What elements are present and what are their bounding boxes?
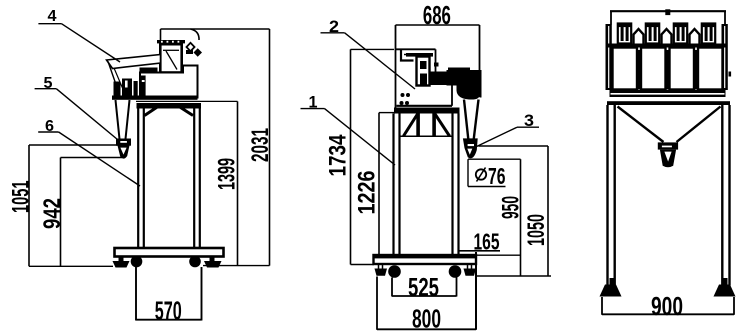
top lid center square — [665, 9, 670, 15]
dim 686 line — [396, 24, 480, 26]
right side plate tick — [729, 72, 732, 77]
label 2 leader — [345, 33, 415, 89]
ground extension right — [477, 275, 551, 277]
right screw foot pad — [204, 261, 222, 268]
frame left leg inner — [398, 114, 400, 256]
stand right leg outer — [728, 105, 730, 286]
motor white slit — [142, 80, 145, 82]
dim 1399 line — [237, 101, 239, 265]
label 6 leader — [59, 132, 140, 186]
weigh hopper 2 — [641, 48, 666, 90]
left foot stem — [610, 278, 614, 286]
svg-text:900: 900 — [651, 291, 683, 321]
head lower box right edge — [451, 85, 453, 106]
body top-left dark band — [140, 68, 158, 73]
head top edge — [396, 48, 436, 50]
feed hopper 2 — [646, 24, 659, 44]
svg-text:1734: 1734 — [325, 134, 352, 176]
frame cross member — [399, 135, 454, 137]
spout bag white inner V — [120, 148, 126, 155]
dim 900 line — [602, 313, 734, 315]
dim 165 underline — [458, 250, 500, 252]
feed hopper 3 — [674, 24, 687, 44]
diamond chute black block — [194, 48, 203, 56]
head right vertical line — [435, 49, 437, 71]
dim 570 line — [136, 319, 202, 321]
funnel spout white inner V — [467, 149, 472, 155]
top hopper lid white slits — [161, 41, 179, 43]
funnel spout bag — [118, 146, 130, 159]
linkage strip 3 — [695, 50, 697, 89]
arrow divider 2 — [662, 29, 672, 46]
funnel spout collar — [116, 139, 131, 146]
weigh funnel cone left edge — [116, 100, 120, 139]
mid band — [606, 44, 728, 48]
film column outer — [417, 57, 430, 86]
top lid line — [610, 10, 726, 12]
head bracket inner step — [404, 54, 414, 56]
arrow divider 1 — [634, 29, 644, 46]
svg-text:165: 165 — [474, 229, 500, 255]
dia 76 box left edge — [467, 159, 469, 186]
dim 1734 bottom extension — [351, 264, 375, 266]
bolt dots row1 — [401, 93, 405, 97]
left screw foot stems — [378, 264, 380, 269]
discharge funnel cone left — [464, 100, 469, 142]
right screw foot stem — [210, 257, 215, 262]
bolt dots row2 — [400, 101, 404, 105]
svg-text:1399: 1399 — [214, 158, 241, 190]
dia 76 symbol slash — [477, 168, 486, 182]
jaw lower blob — [447, 70, 481, 100]
dim 525 line — [392, 295, 457, 297]
dim 570 left extension — [135, 267, 137, 321]
left screw foot stem — [119, 257, 124, 262]
bag clamp mechanism right block — [134, 81, 138, 96]
bag collar — [658, 142, 678, 149]
dim 950 line — [520, 159, 522, 276]
vibratory feeder tray — [107, 55, 161, 69]
frame left leg outer line — [137, 109, 139, 249]
head left bracket — [401, 50, 414, 61]
svg-text:2031: 2031 — [247, 128, 274, 162]
left brace — [404, 114, 418, 136]
V funnel left — [618, 107, 664, 143]
svg-text:1: 1 — [309, 93, 318, 112]
frame bottom bar — [115, 248, 224, 257]
stand right leg inner — [721, 105, 723, 286]
right side plate white slit — [724, 26, 726, 88]
hopper section bottom band — [610, 90, 726, 98]
bag clamp mechanism center block — [122, 79, 132, 96]
V funnel right — [677, 107, 721, 143]
frame right leg inner — [451, 114, 453, 256]
dim 525 right extension — [456, 278, 458, 297]
jaw upper blob — [448, 68, 470, 73]
dim 525 left extension — [391, 278, 393, 297]
head right edge — [480, 70, 482, 98]
svg-text:1051: 1051 — [8, 181, 35, 214]
svg-text:686: 686 — [423, 0, 451, 30]
frame top bar — [137, 103, 202, 109]
window column outer — [160, 44, 181, 72]
bottom band white slit — [611, 93, 725, 95]
dia 76 underline — [468, 186, 506, 188]
label 5 leader — [56, 89, 117, 140]
frame right leg outer — [457, 114, 459, 256]
window inner top line — [163, 49, 179, 51]
svg-text:800: 800 — [412, 304, 441, 333]
stand left leg outer — [606, 105, 608, 286]
svg-text:950: 950 — [498, 196, 525, 219]
clamp white slit — [125, 81, 128, 88]
left side plate white slit — [608, 26, 610, 88]
feed hopper 1 bars — [621, 27, 624, 42]
small bracket above body right — [186, 50, 193, 54]
left screw foot pad — [375, 269, 388, 276]
svg-text:1050: 1050 — [523, 214, 550, 246]
dim 1050 line — [547, 146, 549, 276]
platform bar under head — [112, 96, 198, 100]
film column lower black window — [420, 74, 427, 85]
linkage strip 1 — [638, 50, 640, 89]
tray hanger rod — [108, 62, 120, 97]
svg-text:525: 525 — [408, 272, 439, 302]
dia 76 symbol circle — [476, 169, 486, 179]
head lower box bottom — [397, 105, 453, 107]
frame left gusset — [145, 107, 159, 116]
top hopper right curved edge — [191, 29, 200, 40]
dim 686 left extension / head left edge — [395, 25, 397, 113]
weigh hopper 4 — [698, 48, 723, 90]
dim 800 left extension — [376, 277, 378, 330]
svg-text:6: 6 — [45, 118, 54, 135]
feed hopper 4 — [702, 24, 715, 44]
top lid left edge — [610, 11, 612, 25]
dim 2031 line — [269, 29, 271, 266]
stand left leg inner — [614, 105, 616, 286]
label 1 underline — [301, 108, 325, 110]
label 2 underline — [321, 32, 345, 34]
svg-text:76: 76 — [488, 163, 506, 189]
funnel spout collar slit — [120, 141, 127, 143]
dim 1226 top extension — [379, 112, 394, 114]
dim 800 line — [377, 328, 476, 330]
dim 1734 line — [350, 49, 352, 264]
stand top bar — [607, 101, 730, 105]
weigh hopper 3 — [670, 48, 695, 90]
svg-text:570: 570 — [155, 295, 182, 325]
left caster — [388, 265, 401, 278]
right caster — [449, 265, 462, 278]
label 4 leader — [62, 24, 121, 62]
linkage strip 2 — [667, 50, 669, 89]
frame left leg inner line — [143, 109, 145, 249]
dim 950 top extension — [468, 158, 521, 160]
frame right leg outer line — [199, 109, 201, 249]
discharge funnel cone right — [474, 100, 479, 142]
weigh hopper 1 — [613, 48, 638, 90]
svg-text:1226: 1226 — [354, 171, 381, 215]
feed hopper 2 bars — [649, 27, 652, 42]
head right tick — [434, 63, 439, 67]
frame thin top line + 1399 extension — [136, 100, 238, 102]
body main box — [140, 66, 198, 98]
dim 570 right extension — [201, 267, 203, 321]
left screw foot pad — [113, 261, 130, 268]
dim 1051 line — [28, 145, 30, 266]
dim 1226 line — [378, 113, 380, 255]
left foot pad — [600, 285, 622, 297]
arrow divider 3 — [690, 29, 700, 46]
machine top line / 2031 top extension — [161, 28, 270, 30]
weigh funnel cone right edge — [126, 100, 130, 139]
top hopper lid band — [157, 40, 185, 43]
right foot pad — [714, 285, 736, 297]
frame right gusset — [179, 107, 193, 116]
ground line left segment — [29, 265, 113, 267]
bag collar white slit — [662, 146, 672, 148]
svg-text:3: 3 — [524, 111, 534, 130]
frame left leg outer — [392, 114, 394, 256]
ground line right segment / dim bottom extension — [203, 265, 270, 267]
bag clamp mechanism left block — [114, 82, 121, 97]
left mount post — [416, 114, 420, 137]
dim 1734 top extension — [351, 48, 395, 50]
right screw foot pad — [464, 269, 477, 276]
funnel collar white slit — [468, 144, 474, 146]
dim 942 extension top — [61, 157, 123, 159]
motor block behind funnel — [141, 76, 146, 98]
right mount post — [432, 114, 436, 137]
svg-text:942: 942 — [39, 198, 66, 229]
label 6 underline — [38, 131, 58, 133]
film column upper black window — [420, 61, 427, 69]
left side plate — [606, 24, 612, 90]
svg-text:4: 4 — [48, 8, 57, 25]
dim 900 left extension — [601, 297, 603, 315]
feed hopper 1 — [618, 24, 631, 44]
dim 686 right extension — [479, 25, 481, 97]
label 1 leader — [325, 109, 396, 165]
right foot stem — [724, 278, 728, 286]
svg-text:2: 2 — [329, 17, 339, 36]
feed hopper 4 bars — [705, 27, 708, 42]
svg-text:5: 5 — [44, 75, 53, 92]
label 3 leader — [475, 127, 518, 147]
label 4 underline — [38, 23, 61, 25]
frame right leg inner line — [193, 109, 195, 249]
sealing jaw band — [429, 72, 475, 86]
diamond discharge chute white — [187, 43, 195, 51]
funnel collar and spout — [463, 138, 478, 158]
head horizontal band — [406, 53, 433, 57]
bag body — [660, 150, 676, 168]
right side plate — [722, 24, 728, 90]
left caster wheel — [131, 256, 143, 268]
dim 800 right extension — [475, 252, 477, 330]
frame bottom bar — [374, 255, 477, 264]
dim 1050 top extension — [479, 145, 549, 147]
dim 900 right extension — [733, 297, 735, 315]
right screw foot stems — [467, 264, 469, 269]
window diagonal — [166, 51, 177, 70]
right caster wheel — [189, 256, 201, 268]
dim 165 upper extension — [477, 254, 521, 256]
feed hopper 3 bars — [677, 27, 680, 42]
frame top bar — [394, 108, 460, 114]
head upper-left vertical edge — [160, 29, 162, 44]
label 5 underline — [35, 88, 57, 90]
right brace — [435, 114, 450, 136]
dim 1051 extension top — [29, 144, 119, 146]
top lid right edge — [724, 11, 726, 25]
label 3 underline — [517, 126, 539, 128]
bag inner white V — [664, 152, 671, 162]
dim 942 line — [60, 158, 62, 267]
tray second support — [114, 68, 123, 88]
